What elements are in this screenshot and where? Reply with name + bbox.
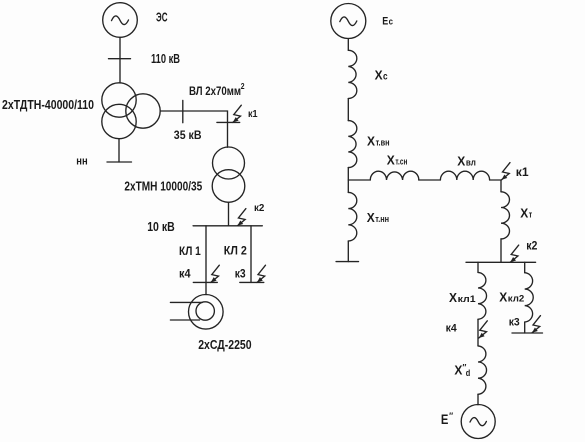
fault к2 bolt — [237, 209, 246, 226]
reactance Хт.нн — [348, 192, 357, 241]
reactance Хкл2 — [525, 273, 534, 322]
svg-text:Х: Х — [520, 206, 528, 221]
motor M 2хСД-2250 — [189, 295, 224, 330]
wire Хс to Хт.вн — [347, 99, 349, 121]
transformer T2 2хТМН 10000/35 — [213, 147, 245, 179]
svg-text:к3: к3 — [235, 266, 246, 280]
svg-text:ЭС: ЭС — [156, 10, 168, 24]
svg-text:2хТМН 10000/35: 2хТМН 10000/35 — [124, 179, 202, 194]
svg-text:d: d — [466, 368, 471, 378]
wire node — [347, 168, 349, 193]
motor lead upper — [170, 301, 202, 303]
svg-text:10 кВ: 10 кВ — [147, 219, 175, 234]
fault к1 bolt — [233, 105, 242, 122]
svg-text:2: 2 — [241, 82, 245, 91]
svg-text:к2: к2 — [254, 202, 265, 214]
svg-text:Х: Х — [449, 290, 457, 305]
svg-text:Х: Х — [367, 133, 375, 148]
svg-text:с: с — [383, 72, 388, 83]
reactance Хвл — [440, 171, 489, 180]
source ЭС — [103, 3, 138, 38]
wire Хт.сн to Хвл — [419, 179, 441, 181]
reactance Хкл1 — [478, 272, 487, 319]
svg-text:Е: Е — [441, 412, 449, 427]
svg-text:к2: к2 — [526, 239, 537, 253]
svg-text:к4: к4 — [446, 323, 458, 335]
terminal bar нн — [107, 161, 132, 163]
wire Хкл1 to Хd — [477, 319, 479, 346]
reactance Хт.вн — [348, 121, 357, 168]
svg-text:35 кВ: 35 кВ — [174, 128, 202, 142]
wire bus to Хкл1 — [477, 262, 479, 272]
svg-text:Х: Х — [367, 210, 375, 225]
svg-text:с: с — [389, 16, 393, 27]
svg-text:Х: Х — [499, 290, 507, 305]
fault к3 tick — [240, 281, 264, 283]
svg-text:″: ″ — [449, 411, 454, 421]
svg-text:кл2: кл2 — [508, 294, 525, 305]
svg-text:т.вн: т.вн — [376, 137, 390, 148]
bus right — [466, 261, 536, 263]
wire нн — [118, 139, 120, 162]
svg-text:к4: к4 — [179, 266, 191, 280]
reactance Хс — [348, 50, 357, 98]
wire КЛ 2 — [250, 226, 252, 283]
svg-text:КЛ 1: КЛ 1 — [179, 244, 201, 258]
bus 10 кВ — [193, 225, 262, 227]
svg-text:Х: Х — [387, 153, 395, 168]
svg-text:кл1: кл1 — [458, 294, 477, 305]
line marker ВЛ — [182, 100, 184, 122]
svg-text:к1: к1 — [248, 108, 258, 120]
svg-text:Х: Х — [375, 68, 383, 83]
fault к4 tick — [193, 281, 217, 283]
terminal bar Хт.нн — [336, 261, 358, 263]
wire КЛ 1 — [205, 226, 207, 295]
source Е″ — [461, 405, 495, 439]
transformer T1 2хТДТН-40000/110 — [102, 83, 136, 117]
reactance Хт — [501, 192, 510, 239]
fault к4 bolt — [211, 265, 220, 282]
svg-text:Х: Х — [457, 153, 465, 168]
fault к4 bolt right — [479, 321, 488, 338]
fault к1 bolt right — [502, 163, 511, 180]
svg-text:к3: к3 — [509, 317, 520, 329]
svg-text:вл: вл — [466, 157, 476, 168]
svg-text:2хСД-2250: 2хСД-2250 — [198, 338, 251, 352]
svg-text:т.нн: т.нн — [375, 214, 389, 225]
fault к1 tick — [217, 121, 240, 123]
motor lead lower — [170, 319, 199, 321]
fault к3 bolt right — [532, 316, 541, 333]
svg-text:2хТДТН-40000/110: 2хТДТН-40000/110 — [2, 97, 94, 112]
wire ЭС to T1 — [119, 37, 121, 83]
svg-text:т.сн: т.сн — [395, 157, 407, 168]
fault к2 bolt right — [510, 245, 519, 262]
svg-text:нн: нн — [76, 156, 87, 168]
svg-text:к1: к1 — [516, 165, 529, 179]
wire 35 кВ — [160, 111, 227, 147]
svg-text:ВЛ 2х70мм: ВЛ 2х70мм — [189, 84, 241, 98]
svg-text:КЛ 2: КЛ 2 — [224, 244, 247, 258]
wire Ес to Хс — [347, 39, 349, 51]
wire bus to Хкл2 — [524, 262, 526, 272]
svg-text:110 кВ: 110 кВ — [151, 51, 180, 66]
svg-text:Е: Е — [382, 15, 388, 27]
wire Хвл to к1 corner — [490, 180, 501, 192]
wire Хd to Е″ — [477, 394, 479, 405]
bus tick 110 кВ — [109, 58, 131, 60]
source Ес — [331, 4, 366, 39]
fault к3 tick right — [512, 332, 543, 334]
wire Хт.нн to bar — [347, 241, 349, 262]
reactance X″d — [478, 346, 487, 394]
wire Хкл2 to к3 — [524, 322, 526, 333]
wire T2 to bus — [228, 202, 230, 226]
wire Хт to bus — [500, 239, 502, 262]
wire node to Хт.сн — [348, 179, 370, 181]
reactance Хт.сн — [370, 171, 419, 180]
fault к3 bolt — [257, 265, 266, 282]
svg-text:т: т — [529, 210, 533, 221]
